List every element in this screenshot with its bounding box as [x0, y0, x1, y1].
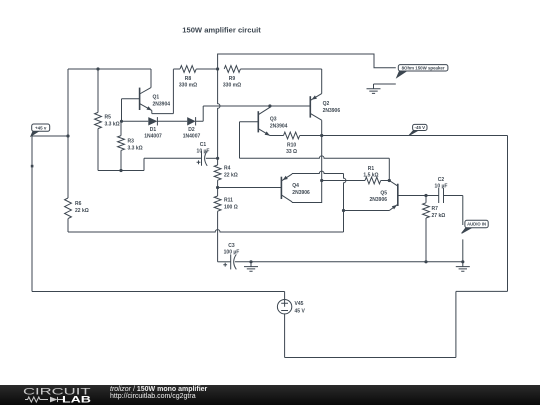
svg-text:Q4: Q4 [292, 183, 299, 189]
resistor R3 3.3k [120, 121, 122, 135]
svg-text:V45: V45 [295, 301, 304, 307]
svg-text:10 µF: 10 µF [197, 148, 210, 154]
svg-text:C3: C3 [228, 243, 235, 249]
svg-text:330 mΩ: 330 mΩ [179, 82, 197, 88]
transistor Q5 2N3906 [397, 184, 399, 206]
wire right riser x456 [455, 291, 457, 357]
svg-text:+45 v: +45 v [35, 125, 47, 130]
svg-text:1.5 kΩ: 1.5 kΩ [363, 172, 378, 178]
wire +45 flag to rail [32, 135, 68, 137]
svg-text:10 µF: 10 µF [435, 184, 448, 190]
node C1 right / R4 top [216, 157, 219, 160]
wire feedback Q3 base to R1 right [240, 156, 390, 181]
wire +45 left drop [31, 136, 33, 292]
resistor R10 33 [270, 135, 284, 137]
svg-text:Q5: Q5 [380, 190, 387, 196]
node Q5 emitter junction [342, 209, 345, 212]
svg-text:2N3906: 2N3906 [369, 197, 387, 203]
svg-text:R3: R3 [128, 139, 135, 145]
node Q1 base junction [120, 120, 123, 123]
svg-text:33 Ω: 33 Ω [286, 149, 297, 155]
svg-text:Q2: Q2 [323, 101, 330, 107]
wire -45V rail [300, 135, 508, 137]
resistor R5 3.3k [97, 69, 99, 112]
resistor R4 22k [217, 158, 219, 165]
capacitor C1 10uF [143, 158, 145, 170]
wire bottom rail V45- to right [285, 357, 456, 359]
wire Q1 emitter to R8 riser [152, 113, 174, 115]
svg-text:150W amplifier circuit: 150W amplifier circuit [182, 25, 261, 34]
wire +45 top rail [68, 68, 151, 70]
footer bar [0, 385, 540, 405]
svg-text:27 kΩ: 27 kΩ [432, 213, 446, 219]
ground near C3 [244, 262, 258, 271]
wire R5-R3-C1 bottom node [98, 170, 144, 172]
wire speaker return [374, 83, 396, 85]
node R8-R9 speaker junction [216, 67, 219, 70]
svg-text:R1: R1 [368, 166, 375, 172]
svg-text:C2: C2 [438, 177, 445, 183]
capacitor C2 10uF [439, 188, 444, 203]
svg-text:D1: D1 [150, 127, 157, 133]
svg-text:2N3906: 2N3906 [292, 190, 310, 196]
diode D1 1N4007 [148, 117, 157, 125]
wire audio in down to ground [462, 239, 464, 261]
wire base row [122, 120, 149, 122]
svg-text:-45 V: -45 V [415, 125, 426, 130]
svg-text:100 Ω: 100 Ω [224, 205, 238, 211]
svg-text:330 mΩ: 330 mΩ [223, 82, 241, 88]
node R7 bottom [424, 260, 427, 263]
svg-text:1N4007: 1N4007 [183, 134, 201, 140]
wire x343 vertical [344, 174, 346, 233]
node Q3 collector junction [268, 104, 271, 107]
wire Q4 emitter to x343 with hop [292, 171, 344, 173]
node R5 top [96, 67, 99, 70]
capacitor C3 100uF [218, 261, 231, 263]
node Q2 collector on -45 rail [320, 134, 323, 137]
svg-text:100 µF: 100 µF [224, 249, 240, 255]
node R7 top [424, 194, 427, 197]
svg-text:R11: R11 [224, 198, 233, 204]
flag -45 V [409, 131, 418, 136]
resistor R1 1.5k [322, 180, 365, 182]
svg-text:2N3904: 2N3904 [270, 123, 288, 129]
svg-text:Q1: Q1 [153, 95, 160, 101]
svg-text:R10: R10 [287, 142, 296, 148]
transistor Q4 2N3906 [218, 187, 282, 189]
resistor R7 27k [425, 196, 427, 203]
svg-text:R4: R4 [224, 166, 231, 172]
wire emitter bus to R6 with hop [68, 230, 344, 232]
node R1 left [320, 179, 323, 182]
transistor Q2 2N3906 [321, 69, 323, 94]
resistor R11 100 [217, 188, 219, 197]
node R4-R11 junction [216, 186, 219, 189]
svg-text:2N3904: 2N3904 [153, 102, 171, 108]
transistor Q1 2N3904 [122, 98, 140, 100]
wire C2 right down [462, 196, 464, 226]
node input ground [461, 260, 464, 263]
svg-text:3.3 kΩ: 3.3 kΩ [105, 122, 120, 128]
wire Q3 base feedback drop [239, 122, 241, 159]
svg-text:2N3906: 2N3906 [323, 108, 341, 114]
resistor R6 22k [67, 219, 69, 232]
wire -45 right drop x507 [507, 136, 509, 292]
resistor R9 330m [224, 66, 240, 73]
svg-text:R5: R5 [105, 115, 112, 121]
svg-text:1N4007: 1N4007 [144, 134, 162, 140]
wire D2 up to base bus [196, 106, 204, 121]
wire R8R9 junction down to C1 node [218, 69, 220, 158]
voltage source V45 [284, 292, 286, 300]
node R1 right / Q5 collector [388, 179, 391, 182]
svg-text:R6: R6 [75, 201, 82, 207]
wire joint marker left rail [31, 165, 34, 168]
wire jog y291 [456, 290, 508, 292]
ground speaker [367, 84, 381, 93]
node R3 bottom [119, 169, 122, 172]
svg-text:22 kΩ: 22 kΩ [75, 208, 89, 214]
svg-text:AUDIO IN: AUDIO IN [467, 222, 486, 227]
svg-text:R8: R8 [185, 76, 192, 82]
wire D1 to D2 [157, 120, 187, 122]
diode D2 1N4007 [187, 117, 195, 125]
svg-text:22 kΩ: 22 kΩ [224, 173, 238, 179]
ground input [456, 262, 470, 271]
svg-text:C1: C1 [200, 142, 207, 148]
svg-text:Q3: Q3 [270, 116, 277, 122]
svg-text:3.3 kΩ: 3.3 kΩ [128, 146, 143, 152]
svg-text:LAB: LAB [62, 395, 92, 405]
node +45 rail junction [66, 134, 69, 137]
credit text [110, 386, 207, 401]
flag AUDIO IN [462, 228, 472, 234]
transistor Q3 2N3904 [258, 106, 270, 115]
flag 8Ohm 150W speaker [397, 71, 407, 77]
wire speaker rail [218, 54, 396, 69]
wire +45 riser x68 [67, 69, 69, 198]
wire bottom left rail to V45+ [32, 291, 285, 293]
svg-text:R7: R7 [432, 206, 439, 212]
svg-text:R9: R9 [229, 76, 236, 82]
node ground tap near C3 [249, 260, 252, 263]
svg-text:8Ohm 150W speaker: 8Ohm 150W speaker [402, 65, 445, 70]
svg-text:D2: D2 [188, 127, 195, 133]
resistor R8 330m [173, 68, 180, 70]
wire base bus to Q2/Q3 with hop [203, 105, 310, 107]
svg-text:45 V: 45 V [295, 309, 306, 315]
flag +45 v [31, 131, 39, 136]
wire Q2 collector down to Q4 collector [292, 136, 322, 203]
CircuitLab logo [0, 385, 100, 405]
